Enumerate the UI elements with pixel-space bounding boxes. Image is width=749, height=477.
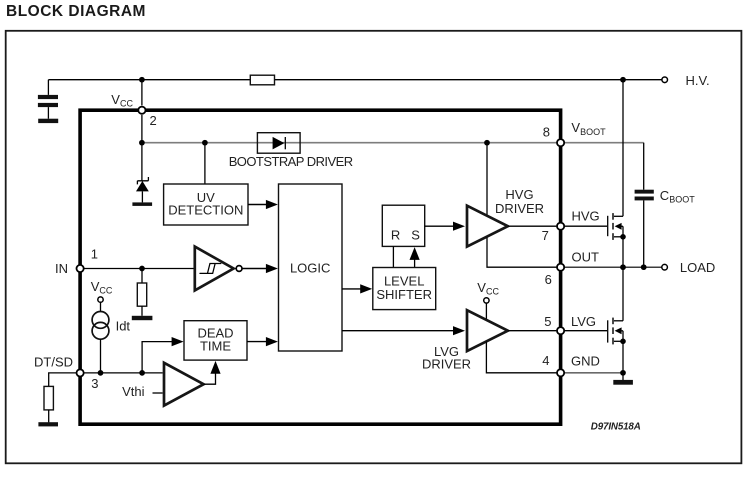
- svg-text:HVG: HVG: [572, 209, 600, 224]
- svg-text:DETECTION: DETECTION: [168, 202, 243, 217]
- svg-text:IN: IN: [55, 261, 68, 276]
- svg-text:S: S: [411, 227, 420, 242]
- svg-text:6: 6: [545, 272, 552, 287]
- svg-text:HVG: HVG: [505, 187, 533, 202]
- svg-text:DT/SD: DT/SD: [34, 355, 73, 370]
- svg-text:OUT: OUT: [572, 250, 600, 265]
- svg-text:TIME: TIME: [200, 339, 231, 354]
- svg-text:4: 4: [542, 353, 549, 368]
- svg-text:GND: GND: [571, 354, 600, 369]
- svg-text:LVG: LVG: [571, 314, 596, 329]
- svg-text:DRIVER: DRIVER: [495, 201, 544, 216]
- svg-text:LOGIC: LOGIC: [290, 260, 330, 275]
- svg-text:BOOTSTRAP DRIVER: BOOTSTRAP DRIVER: [229, 154, 353, 169]
- svg-text:DRIVER: DRIVER: [422, 357, 471, 372]
- svg-text:Idt: Idt: [116, 319, 131, 334]
- svg-text:3: 3: [91, 376, 98, 391]
- svg-text:7: 7: [542, 228, 549, 243]
- svg-text:5: 5: [544, 314, 551, 329]
- svg-text:H.V.: H.V.: [686, 73, 710, 88]
- svg-text:8: 8: [543, 124, 550, 139]
- svg-text:SHIFTER: SHIFTER: [376, 287, 432, 302]
- svg-text:R: R: [391, 227, 400, 242]
- svg-text:BLOCK DIAGRAM: BLOCK DIAGRAM: [6, 3, 146, 20]
- svg-text:LOAD: LOAD: [680, 260, 715, 275]
- svg-text:D97IN518A: D97IN518A: [591, 421, 641, 432]
- svg-text:1: 1: [91, 246, 98, 261]
- svg-text:Vthi: Vthi: [122, 384, 145, 399]
- svg-text:2: 2: [150, 113, 157, 128]
